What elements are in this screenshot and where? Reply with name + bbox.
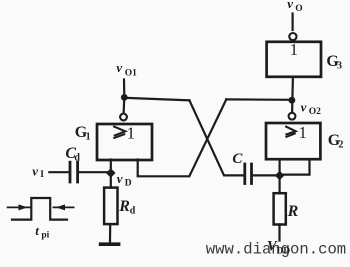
svg-text:DD: DD	[276, 246, 290, 256]
svg-text:2: 2	[338, 139, 343, 150]
"&#8805;" underline stroke inside G2	[286, 133, 296, 137]
pulse width arrow left (pointing right)	[8, 206, 30, 208]
"&#8805;" underline stroke inside G1	[113, 134, 125, 138]
svg-text:O: O	[295, 4, 302, 14]
svg-text:d: d	[74, 152, 80, 163]
wire v_I source to capacitor Cd left plate	[49, 171, 68, 173]
svg-text:C: C	[232, 151, 243, 167]
wire capacitor C right plate to node joining R and G2 input	[252, 174, 280, 176]
junction node v_O1	[121, 94, 128, 101]
svg-text:3: 3	[337, 60, 342, 71]
svg-text:v: v	[301, 100, 307, 115]
wire horizontal from node v_O2 going left	[226, 98, 292, 101]
svg-text:1: 1	[290, 40, 298, 59]
wire G1 bottom-left input pin through node v_D down to resistor Rd	[110, 160, 112, 188]
svg-text:1: 1	[127, 124, 136, 143]
svg-text:v: v	[32, 163, 38, 178]
arrowhead of left pulse-width arrow	[19, 204, 28, 210]
wire cross-coupling diagonal from v_O1 side down-right to capacitor C	[189, 100, 244, 175]
pulse width arrow right (pointing left)	[54, 206, 74, 208]
svg-text:v: v	[116, 60, 122, 75]
svg-text:R: R	[287, 203, 299, 220]
svg-text:v: v	[117, 171, 123, 186]
wire v_O1 stub below label	[123, 80, 126, 98]
svg-text:d: d	[130, 205, 136, 216]
svg-text:pi: pi	[41, 231, 49, 241]
wire v_O stub above G3 bubble	[292, 14, 294, 31]
svg-text:v: v	[287, 0, 293, 11]
wire capacitor Cd right plate to node v_D	[78, 171, 111, 173]
wire cross-coupling diagonal from v_O2 side down-left, along bottom to G1 input pin	[138, 99, 227, 176]
resistor Rd box	[104, 188, 117, 225]
junction node v_O2	[289, 97, 296, 104]
"&#8805;" chevron symbol inside G2	[285, 126, 295, 135]
input pulse waveform symbol	[12, 198, 67, 220]
svg-text:1: 1	[299, 123, 307, 142]
svg-text:O2: O2	[309, 107, 321, 117]
wire G2 bottom-left input pin down to C/R node	[279, 160, 281, 176]
wire horizontal from node v_O1 going right	[124, 98, 189, 101]
wire G2 bottom-right pin wrap-around to C/R node	[281, 160, 309, 175]
output bubble of G3	[289, 33, 296, 40]
ground symbol below Rd	[101, 242, 119, 246]
op-amp gate box G3 (inverter, "1")	[267, 42, 321, 77]
wire G3 output to node v_O2 and into G2 bubble	[291, 77, 294, 113]
svg-text:1: 1	[86, 132, 91, 143]
output bubble of G1	[120, 114, 127, 121]
junction node v_D (diamond dot)	[106, 168, 116, 178]
op-amp gate box G2 (NOR, "&#8805;1")	[266, 123, 320, 159]
arrowhead of right pulse-width arrow	[56, 204, 65, 210]
wire resistor Rd bottom lead to ground	[109, 224, 111, 242]
svg-text:t: t	[35, 223, 39, 238]
output bubble of G2	[289, 113, 296, 120]
capacitor C plates	[243, 164, 246, 184]
svg-text:O1: O1	[125, 68, 137, 78]
svg-text:D: D	[125, 178, 132, 188]
svg-text:I: I	[40, 170, 44, 180]
wire G1 output from node v_O1 down into G1 bubble	[122, 97, 125, 113]
svg-text:R: R	[118, 198, 130, 215]
junction node between C, R and G2 input (diamond dot)	[275, 171, 285, 181]
wire resistor R bottom lead to V_DD	[278, 225, 280, 241]
resistor R box	[274, 193, 286, 224]
wire C/R node down to resistor R	[279, 175, 281, 193]
capacitor Cd plates	[69, 162, 72, 182]
op-amp gate box G1 (NOR, "&#8805;1")	[97, 124, 152, 160]
"&#8805;" chevron symbol inside G1	[113, 126, 125, 136]
